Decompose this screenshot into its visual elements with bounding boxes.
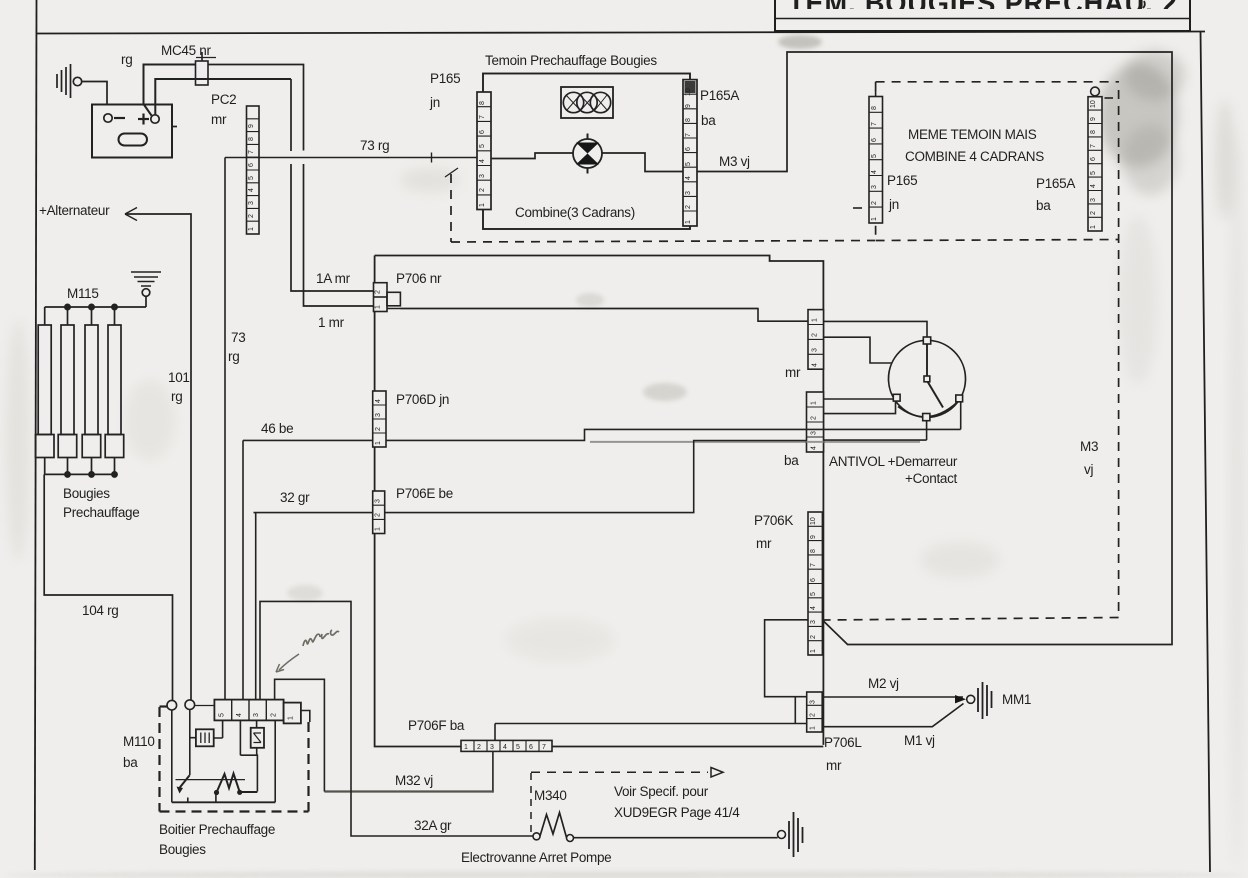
svg-text:P706D jn: P706D jn [396, 392, 449, 407]
svg-text:3: 3 [375, 413, 382, 417]
svg-text:1: 1 [248, 227, 255, 231]
svg-text:8: 8 [871, 106, 878, 110]
svg-text:6: 6 [479, 130, 486, 134]
svg-text:3: 3 [1090, 198, 1097, 202]
svg-text:1: 1 [810, 649, 817, 653]
svg-text:2: 2 [1090, 211, 1097, 215]
svg-text:6: 6 [529, 744, 533, 751]
svg-text:8: 8 [1090, 130, 1097, 134]
svg-text:3: 3 [253, 713, 260, 717]
svg-text:2: 2 [375, 513, 382, 517]
svg-text:1: 1 [375, 305, 382, 309]
svg-text:4: 4 [685, 176, 692, 180]
svg-text:4: 4 [871, 170, 878, 174]
svg-text:7: 7 [479, 115, 486, 119]
svg-text:5: 5 [479, 144, 486, 148]
svg-text:8: 8 [810, 549, 817, 553]
svg-text:7: 7 [542, 744, 546, 751]
svg-text:1: 1 [810, 726, 817, 730]
svg-text:PC2: PC2 [211, 92, 236, 107]
svg-text:4: 4 [1090, 184, 1097, 188]
svg-text:1: 1 [375, 441, 382, 445]
svg-text:M32 vj: M32 vj [395, 773, 433, 788]
svg-text:Boitier Prechauffage: Boitier Prechauffage [159, 822, 275, 837]
svg-text:mr: mr [756, 536, 772, 551]
svg-text:2: 2 [375, 290, 382, 294]
svg-text:3: 3 [810, 700, 817, 704]
svg-text:32A gr: 32A gr [414, 818, 452, 833]
svg-text:7: 7 [685, 133, 692, 137]
svg-text:73: 73 [231, 330, 245, 345]
svg-text:2: 2 [479, 188, 486, 192]
svg-text:+Alternateur: +Alternateur [39, 203, 110, 218]
svg-text:Electrovanne Arret Pompe: Electrovanne Arret Pompe [461, 850, 611, 865]
svg-text:mr: mr [785, 365, 801, 380]
svg-text:6: 6 [871, 138, 878, 142]
svg-text:Prechauffage: Prechauffage [63, 505, 139, 520]
svg-text:P165: P165 [887, 173, 917, 188]
svg-text:2: 2 [248, 214, 255, 218]
svg-text:rg: rg [228, 349, 239, 364]
svg-text:2: 2 [270, 713, 277, 717]
svg-text:mr: mr [211, 112, 227, 127]
svg-text:Bougies: Bougies [159, 842, 206, 857]
svg-text:2: 2 [810, 713, 817, 717]
svg-text:1: 1 [1090, 225, 1097, 229]
svg-text:Combine(3 Cadrans): Combine(3 Cadrans) [515, 205, 635, 220]
svg-text:6: 6 [1090, 157, 1097, 161]
svg-text:P165A: P165A [700, 88, 739, 103]
svg-text:3: 3 [248, 201, 255, 205]
svg-text:32 gr: 32 gr [280, 490, 310, 505]
svg-text:3: 3 [479, 174, 486, 178]
svg-text:3: 3 [490, 744, 494, 751]
svg-text:4: 4 [236, 713, 243, 717]
svg-text:4: 4 [810, 606, 817, 610]
svg-text:7: 7 [871, 122, 878, 126]
svg-text:4: 4 [812, 363, 819, 367]
svg-text:M340: M340 [534, 788, 567, 803]
svg-text:10: 10 [810, 517, 817, 525]
svg-text:3: 3 [811, 431, 818, 435]
svg-text:ba: ba [1036, 198, 1051, 213]
svg-text:ba: ba [123, 755, 138, 770]
svg-text:1: 1 [685, 220, 692, 224]
svg-text:COMBINE 4 CADRANS: COMBINE 4 CADRANS [905, 149, 1044, 164]
svg-text:MEME TEMOIN MAIS: MEME TEMOIN MAIS [908, 127, 1037, 142]
svg-text:1: 1 [375, 527, 382, 531]
svg-text:M115: M115 [67, 286, 99, 301]
svg-text:1: 1 [464, 744, 468, 751]
svg-text:2: 2 [812, 333, 819, 337]
svg-text:5: 5 [871, 154, 878, 158]
svg-text:+Contact: +Contact [905, 471, 958, 486]
svg-text:P706L: P706L [824, 735, 862, 750]
svg-text:2: 2 [810, 635, 817, 639]
svg-text:M3: M3 [1080, 439, 1098, 454]
svg-text:1: 1 [811, 401, 818, 405]
svg-text:MC45 nr: MC45 nr [161, 43, 211, 58]
svg-text:vj: vj [1084, 462, 1093, 477]
svg-text:1: 1 [812, 318, 819, 322]
svg-text:3: 3 [810, 620, 817, 624]
svg-text:4: 4 [811, 446, 818, 450]
svg-text:M2 vj: M2 vj [868, 676, 899, 691]
svg-text:9: 9 [1090, 117, 1097, 121]
svg-text:M1 vj: M1 vj [904, 733, 935, 748]
svg-text:1A mr: 1A mr [316, 271, 351, 286]
svg-text:8: 8 [479, 101, 486, 105]
svg-text:5: 5 [1090, 171, 1097, 175]
svg-text:4: 4 [503, 744, 507, 751]
svg-text:ba: ba [701, 113, 716, 128]
svg-text:2: 2 [375, 427, 382, 431]
svg-text:9: 9 [810, 535, 817, 539]
svg-text:M110: M110 [123, 734, 155, 749]
svg-text:104 rg: 104 rg [82, 603, 118, 618]
svg-text:P706 nr: P706 nr [396, 271, 442, 286]
svg-text:8: 8 [685, 118, 692, 122]
svg-text:9: 9 [685, 104, 692, 108]
svg-text:ANTIVOL +Demarreur: ANTIVOL +Demarreur [829, 454, 958, 469]
svg-text:5: 5 [685, 162, 692, 166]
svg-text:1 mr: 1 mr [318, 315, 345, 330]
svg-text:7: 7 [810, 563, 817, 567]
svg-text:4: 4 [375, 399, 382, 403]
svg-text:1: 1 [288, 716, 295, 720]
svg-text:2: 2 [477, 744, 481, 751]
svg-text:M3 vj: M3 vj [719, 154, 750, 169]
svg-text:101: 101 [168, 370, 190, 385]
svg-text:P165A: P165A [1036, 176, 1075, 191]
svg-text:3: 3 [685, 191, 692, 195]
svg-text:1: 1 [871, 217, 878, 221]
svg-text:jn: jn [429, 95, 440, 110]
svg-text:3: 3 [871, 185, 878, 189]
svg-text:5: 5 [516, 744, 520, 751]
svg-text:2: 2 [685, 205, 692, 209]
svg-text:6: 6 [248, 163, 255, 167]
svg-text:rg: rg [121, 52, 132, 67]
svg-text:XUD9EGR Page 41/4: XUD9EGR Page 41/4 [614, 805, 740, 820]
svg-text:rg: rg [171, 389, 182, 404]
svg-text:ba: ba [784, 453, 799, 468]
svg-text:7: 7 [248, 150, 255, 154]
svg-text:10: 10 [685, 88, 692, 96]
svg-text:4: 4 [479, 159, 486, 163]
svg-text:6: 6 [810, 578, 817, 582]
svg-text:4: 4 [248, 188, 255, 192]
svg-text:P165: P165 [430, 71, 460, 86]
svg-text:7: 7 [1090, 144, 1097, 148]
svg-text:5: 5 [810, 592, 817, 596]
svg-text:6: 6 [685, 147, 692, 151]
svg-text:mr: mr [826, 758, 842, 773]
svg-text:P706F ba: P706F ba [408, 718, 465, 733]
svg-text:MM1: MM1 [1002, 692, 1031, 707]
svg-text:2: 2 [811, 416, 818, 420]
svg-text:Bougies: Bougies [63, 486, 110, 501]
svg-text:P706K: P706K [754, 513, 793, 528]
svg-text:3: 3 [812, 348, 819, 352]
svg-text:5: 5 [219, 713, 226, 717]
svg-text:jn: jn [888, 197, 899, 212]
svg-text:P706E be: P706E be [396, 486, 453, 501]
svg-text:8: 8 [248, 137, 255, 141]
svg-text:3: 3 [375, 499, 382, 503]
svg-text:9: 9 [248, 124, 255, 128]
svg-text:5: 5 [248, 176, 255, 180]
svg-text:1: 1 [479, 203, 486, 207]
svg-text:Voir Specif. pour: Voir Specif. pour [614, 784, 709, 799]
svg-text:73 rg: 73 rg [360, 138, 389, 153]
svg-text:10: 10 [1090, 100, 1097, 108]
svg-text:Temoin Prechauffage Bougies: Temoin Prechauffage Bougies [485, 53, 657, 68]
svg-text:46 be: 46 be [261, 421, 293, 436]
svg-text:2: 2 [871, 201, 878, 205]
